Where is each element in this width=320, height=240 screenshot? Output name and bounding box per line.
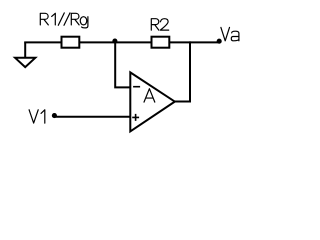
resistor R2	[152, 37, 170, 48]
op-amp plus input sign	[132, 114, 139, 121]
wire V1 to noninverting input	[54, 116, 130, 118]
wire ground to R1	[24, 41, 61, 43]
wire R2 to Va	[169, 41, 219, 43]
wire R1 to R2	[79, 41, 151, 43]
node V1 terminal dot	[52, 113, 57, 118]
wire inverting input	[115, 42, 130, 87]
op-amp gain label A	[144, 89, 155, 102]
op-amp U1 triangle	[130, 72, 175, 131]
label Va	[221, 27, 239, 40]
ground	[15, 42, 35, 67]
label R2	[151, 19, 168, 30]
wire op-amp output feedback	[175, 41, 190, 101]
label V1	[29, 110, 45, 123]
label R1//Rg	[40, 13, 88, 28]
op-amp minus input sign	[133, 86, 140, 88]
resistor R1//Rg	[62, 37, 80, 48]
node junction dot inverting	[112, 38, 117, 43]
node Va terminal dot	[217, 39, 222, 44]
